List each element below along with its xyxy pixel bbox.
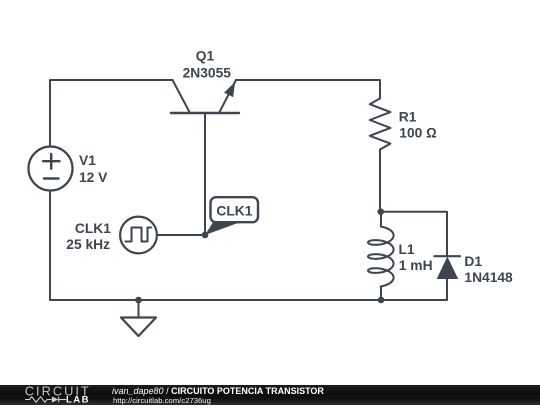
- svg-text:1N4148: 1N4148: [464, 270, 513, 285]
- svg-text:D1: D1: [464, 254, 482, 269]
- svg-text:1 mH: 1 mH: [399, 258, 433, 273]
- svg-text:CLK1: CLK1: [216, 204, 252, 219]
- svg-text:Q1: Q1: [196, 49, 215, 64]
- svg-text:25 kHz: 25 kHz: [66, 237, 110, 252]
- svg-text:2N3055: 2N3055: [183, 66, 232, 81]
- svg-text:V1: V1: [79, 153, 96, 168]
- svg-text:R1: R1: [399, 110, 417, 125]
- svg-text:L1: L1: [399, 242, 415, 257]
- svg-text:CLK1: CLK1: [75, 221, 111, 236]
- svg-text:100 Ω: 100 Ω: [399, 126, 437, 141]
- svg-text:12 V: 12 V: [79, 170, 108, 185]
- svg-text:LAB: LAB: [66, 395, 90, 405]
